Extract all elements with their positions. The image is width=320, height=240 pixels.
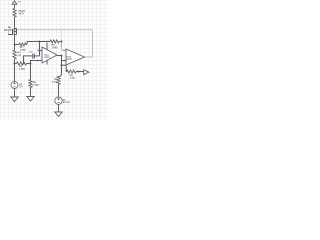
svg-text:1 MΩ: 1 MΩ <box>33 84 39 87</box>
svg-text:1 MΩ: 1 MΩ <box>19 68 25 71</box>
svg-text:18 Ω: 18 Ω <box>18 12 23 15</box>
svg-text:BS170: BS170 <box>4 29 12 32</box>
svg-text:1 MΩ: 1 MΩ <box>20 49 26 52</box>
svg-text:1 kΩ: 1 kΩ <box>52 81 57 84</box>
svg-text:1 MΩ: 1 MΩ <box>52 46 58 49</box>
svg-text:OP07: OP07 <box>67 59 73 61</box>
svg-text:OP07: OP07 <box>44 57 50 59</box>
svg-text:1 Ω: 1 Ω <box>17 54 21 57</box>
svg-text:1 kΩ: 1 kΩ <box>70 77 75 80</box>
svg-text:50 mV: 50 mV <box>63 101 70 104</box>
svg-text:5 V: 5 V <box>19 85 23 88</box>
